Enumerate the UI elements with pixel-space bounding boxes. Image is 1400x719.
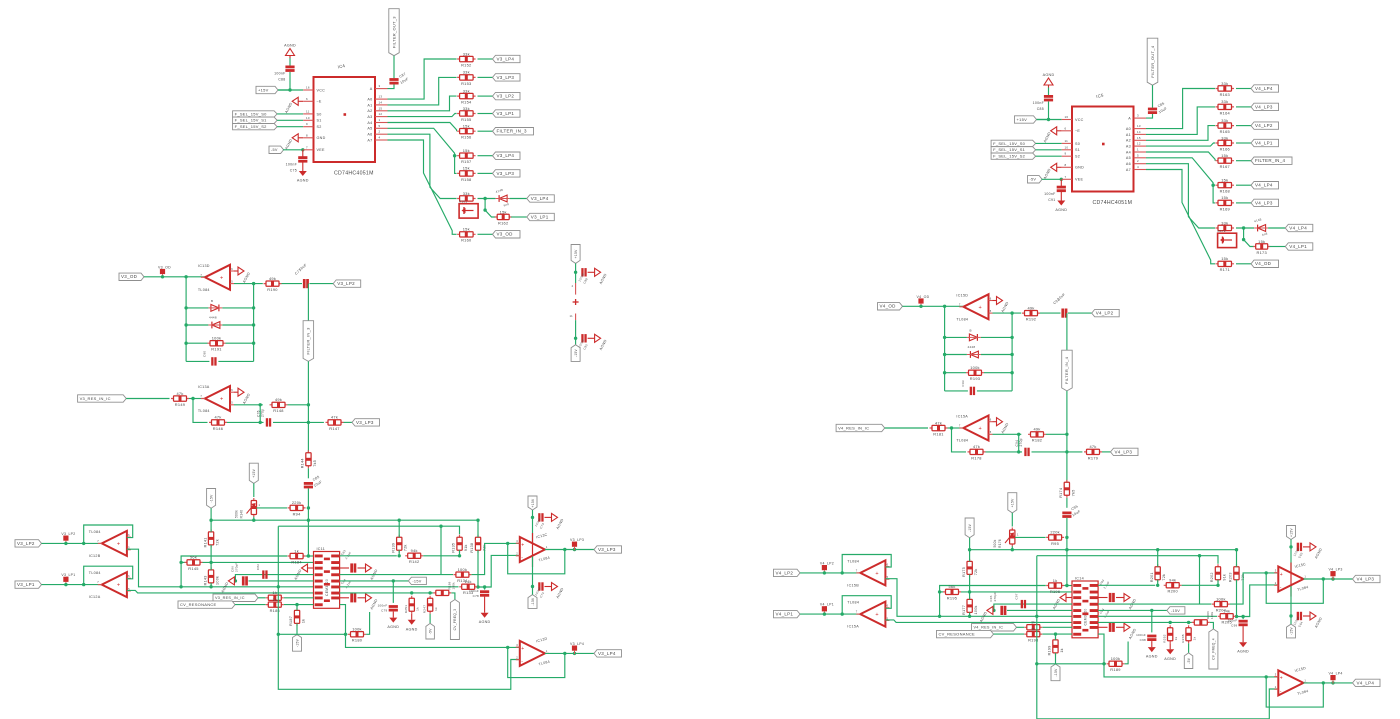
wire (253, 517, 255, 520)
wire (477, 555, 520, 587)
svg-text:AGND: AGND (1043, 168, 1052, 180)
capacitor C95 10uF (1062, 512, 1071, 515)
pin 9 S2 (303, 126, 313, 128)
wire (1046, 433, 1067, 435)
net flag V3_LP4 (493, 152, 521, 159)
wire (1236, 263, 1251, 265)
wire A2 (1146, 126, 1215, 141)
wire to filter (885, 579, 1072, 617)
svg-text:A7: A7 (1126, 168, 1131, 172)
junction (943, 305, 946, 308)
svg-text:7k5: 7k5 (313, 460, 317, 467)
wire (575, 263, 577, 283)
net flag CV_RESONANCE (178, 601, 235, 608)
svg-text:AGND: AGND (284, 44, 296, 48)
wire row E (1007, 609, 1072, 611)
svg-text:FILTER_IN_3: FILTER_IN_3 (306, 327, 311, 355)
svg-text:A6: A6 (1126, 162, 1131, 166)
svg-text:7: 7 (97, 580, 99, 584)
wire rail 2 (278, 526, 459, 534)
ground AGND at op-amp (234, 391, 238, 393)
svg-text:C74: C74 (539, 591, 545, 598)
svg-text:-5V: -5V (1187, 657, 1191, 663)
svg-text:+15V: +15V (574, 249, 578, 258)
filter IC IC11 CEM3320 (314, 552, 340, 609)
pin 1 A4 (375, 122, 388, 124)
pin 14 A1 (1134, 133, 1147, 135)
resistor R159 33k (457, 198, 476, 200)
resistor R196 1k (1046, 585, 1064, 587)
svg-text:33k: 33k (463, 191, 470, 196)
svg-text:C79: C79 (381, 609, 387, 613)
ground AGND below C75 (302, 163, 304, 172)
svg-text:1k: 1k (1053, 578, 1058, 583)
wire supply rail 1 (211, 519, 478, 521)
svg-text:R157: R157 (461, 159, 471, 164)
junction (179, 585, 182, 588)
wire (1217, 580, 1219, 586)
wire (344, 421, 353, 423)
svg-text:AGND: AGND (1164, 657, 1176, 661)
svg-text:R164: R164 (1220, 110, 1231, 115)
op-amp IC13D (205, 265, 230, 290)
net flag V3_OD input (119, 273, 144, 280)
svg-text:AGND: AGND (1314, 547, 1323, 559)
wire rail 2 (1037, 556, 1218, 564)
resistor R179 47k (1084, 451, 1102, 453)
svg-text:15: 15 (379, 106, 383, 110)
resistor R184 1k (288, 555, 306, 557)
trimmer R140 500k (253, 498, 255, 517)
op-amp IC13C (520, 537, 545, 562)
svg-text:A7: A7 (367, 138, 372, 142)
wire (1236, 585, 1279, 617)
net flag CV_FREQ_3 (450, 600, 459, 640)
wire branch (440, 526, 442, 574)
wire (144, 276, 205, 278)
junction (943, 371, 946, 374)
wire (210, 520, 212, 532)
svg-text:1k: 1k (301, 619, 305, 623)
svg-text:4: 4 (1137, 165, 1139, 169)
svg-text:R252: R252 (1162, 634, 1166, 643)
svg-text:3: 3 (1275, 569, 1277, 573)
wire row B resistor branch (181, 561, 185, 563)
wire feedback (842, 555, 891, 573)
op-amp IC15C (1278, 567, 1303, 592)
wire (210, 545, 212, 563)
svg-text:2: 2 (1275, 685, 1277, 689)
resistor R152 33k (457, 58, 476, 60)
svg-text:R147: R147 (329, 426, 339, 431)
wire left branch R180 row (1037, 556, 1279, 719)
svg-text:C82: C82 (256, 564, 260, 570)
svg-text:100k: 100k (1210, 611, 1214, 619)
junction (1011, 548, 1014, 551)
svg-text:13: 13 (379, 95, 383, 99)
svg-text:CV_FREQ_3: CV_FREQ_3 (453, 609, 457, 631)
svg-text:R167: R167 (1220, 164, 1230, 169)
op-amp IC15A (963, 416, 988, 441)
svg-text:6: 6 (231, 388, 233, 392)
svg-text:C91: C91 (1048, 198, 1055, 202)
junction (1235, 615, 1238, 618)
svg-text:A5: A5 (1126, 156, 1131, 160)
wire (284, 604, 314, 606)
svg-text:-15V: -15V (531, 597, 535, 606)
resistor R158 15k (457, 172, 476, 174)
svg-text:V4_LP3: V4_LP3 (1329, 568, 1343, 572)
svg-text:S2: S2 (317, 125, 322, 129)
net flag V4_LP3 (1251, 103, 1279, 110)
resistor R149 47k (171, 398, 189, 400)
svg-text:R160: R160 (461, 238, 472, 243)
junction (184, 306, 187, 309)
resistor R192 49k (1022, 312, 1040, 314)
supply flag +15V at op-amp (1287, 526, 1296, 540)
svg-text:6: 6 (128, 574, 130, 578)
wire (485, 199, 495, 218)
svg-text:49k: 49k (269, 276, 276, 281)
svg-text:R179: R179 (1088, 455, 1098, 460)
wire (459, 550, 461, 556)
wire (1268, 227, 1285, 229)
svg-text:C78: C78 (473, 594, 479, 598)
junction (1322, 577, 1325, 580)
junction (938, 590, 941, 593)
op-amp power pins IC12P (575, 283, 577, 295)
wire (1037, 663, 1106, 665)
capacitor C75 100nF (302, 150, 304, 157)
supply flag -5V (1184, 653, 1193, 669)
wire (1157, 550, 1159, 567)
resistor R154 33k (457, 95, 476, 97)
junction (161, 275, 164, 278)
supply flag -15V row E (1167, 607, 1185, 614)
wire (1036, 142, 1062, 144)
svg-text:6: 6 (128, 533, 130, 537)
svg-text:7: 7 (856, 610, 858, 614)
svg-text:100nF: 100nF (274, 72, 285, 76)
wire (1011, 546, 1013, 549)
resistor R197 1k (1024, 626, 1042, 628)
ground AGND (545, 516, 552, 518)
wire trimmer wiper (256, 507, 287, 509)
supply flag -5V (426, 623, 435, 639)
junction (209, 561, 212, 564)
svg-text:270pF: 270pF (993, 592, 997, 602)
resistor R177 100k vertical (969, 597, 971, 615)
svg-text:R149: R149 (175, 402, 185, 407)
ground AGND below C79 (1151, 641, 1153, 647)
svg-text:1k: 1k (294, 548, 299, 553)
svg-text:C73: C73 (539, 522, 545, 529)
wire (278, 89, 303, 91)
filter IC IC14 CEM3320 (1072, 581, 1098, 638)
svg-text:R139: R139 (391, 543, 395, 553)
svg-text:V4_LP1: V4_LP1 (1255, 140, 1273, 145)
wire (1036, 149, 1062, 151)
svg-text:+: + (521, 646, 524, 652)
wire (1066, 518, 1068, 585)
pin 5 A5 (1134, 157, 1147, 159)
resistor R175 72k vertical (969, 559, 971, 577)
resistor R171 15k (1216, 263, 1235, 265)
wire (186, 342, 208, 344)
svg-text:-: - (1280, 689, 1282, 695)
svg-text:V3_LP4: V3_LP4 (570, 642, 584, 646)
pin 3 A (1134, 117, 1147, 119)
svg-text:100k: 100k (452, 582, 456, 590)
op-amp IC15A buffer (860, 602, 885, 627)
wire (210, 562, 212, 570)
svg-text:1: 1 (1304, 678, 1306, 682)
net flag V4_LP4 (1251, 85, 1279, 92)
svg-text:AGND: AGND (1314, 616, 1323, 628)
wire (1102, 451, 1111, 453)
svg-text:IC5: IC5 (1096, 92, 1105, 99)
svg-text:33k: 33k (1221, 118, 1228, 123)
supply flag -5V (269, 146, 284, 153)
junction (968, 548, 971, 551)
supply flag -5V (1028, 176, 1043, 183)
svg-text:R189: R189 (1110, 667, 1120, 672)
pin 6 ~E (1062, 130, 1072, 132)
wire (227, 421, 264, 423)
pin 5 A5 (375, 127, 388, 129)
wire row D right (340, 574, 453, 576)
svg-text:S1: S1 (1075, 148, 1080, 152)
junction (1047, 118, 1050, 121)
svg-text:1: 1 (546, 649, 548, 653)
wire (253, 483, 255, 497)
svg-text:5: 5 (379, 124, 381, 128)
ground AGND at op-amp (993, 421, 997, 423)
wire (222, 324, 253, 326)
pin 11 S0 (1062, 142, 1072, 144)
svg-text:A4: A4 (367, 121, 372, 125)
resistor R200 94k (1164, 584, 1182, 586)
svg-text:V3_LP4: V3_LP4 (497, 153, 515, 158)
junction (1102, 662, 1105, 665)
wire (969, 592, 971, 600)
svg-text:-15V: -15V (295, 638, 299, 647)
svg-text:R187: R187 (289, 616, 293, 626)
svg-text:270p: 270p (1019, 438, 1023, 446)
pin 13 A0 (375, 98, 388, 100)
supply flag +15V at op-amp (528, 496, 537, 510)
capacitor C89 100nF (581, 268, 583, 276)
svg-text:CV_FREQ_4: CV_FREQ_4 (1212, 638, 1216, 660)
ground AGND left of filter pin (308, 567, 314, 569)
svg-text:AGND: AGND (1146, 655, 1158, 659)
wire (510, 198, 527, 200)
svg-text:V3_LP4: V3_LP4 (497, 56, 515, 61)
junction (288, 88, 291, 91)
diode D4b 4448 (970, 351, 978, 358)
net flag V4_LP2 buffer input (774, 569, 801, 576)
svg-text:7k5: 7k5 (1071, 489, 1075, 496)
junction (301, 148, 304, 151)
junction (1289, 545, 1292, 548)
wire (981, 336, 1012, 338)
svg-text:AGND: AGND (599, 339, 608, 351)
junction (252, 282, 255, 285)
svg-text:+: + (117, 583, 121, 589)
junction (307, 403, 310, 406)
svg-text:47k: 47k (1089, 444, 1096, 449)
capacitor C85 10uF (304, 482, 313, 485)
svg-text:49k: 49k (1027, 305, 1034, 310)
pin 12 A3 (375, 116, 388, 118)
junction (1216, 584, 1219, 587)
wire (945, 390, 968, 392)
svg-text:-15V: -15V (574, 348, 578, 357)
pin 9 S2 (1062, 155, 1072, 157)
svg-text:16: 16 (1065, 115, 1069, 119)
svg-text:IC15B: IC15B (847, 583, 859, 587)
capacitor C97 (1000, 606, 1003, 615)
junction (458, 554, 461, 557)
wire feedback (1266, 677, 1323, 707)
junction (64, 583, 67, 586)
wire (126, 398, 169, 400)
svg-text:270pF: 270pF (235, 562, 239, 572)
ground AGND row E (234, 580, 235, 582)
wire (277, 126, 303, 128)
svg-text:V4_LP4: V4_LP4 (1255, 86, 1273, 91)
ground AGND (545, 586, 552, 588)
junction (191, 397, 194, 400)
wire A6 (1146, 164, 1215, 228)
net flag F_SEL_15V_S1 (991, 147, 1036, 153)
wire (1055, 653, 1057, 664)
svg-text:+: + (875, 612, 879, 618)
svg-text:R141: R141 (203, 537, 207, 547)
svg-text:-15V: -15V (1171, 609, 1180, 613)
supply flag -15V row E (408, 577, 426, 584)
svg-text:10uF: 10uF (1057, 292, 1067, 301)
wire (1236, 184, 1251, 186)
svg-text:R182: R182 (1032, 438, 1042, 443)
net flag V3_LP2 (493, 92, 521, 99)
wire (1270, 246, 1286, 248)
wire vertical trunk (307, 361, 309, 452)
wire (278, 72, 290, 90)
svg-text:A4: A4 (1126, 150, 1131, 154)
wire (800, 572, 860, 574)
resistor R248 1k vertical (1188, 625, 1190, 643)
wire (478, 198, 496, 200)
junction (919, 305, 922, 308)
ground AGND at enable pin (1057, 130, 1062, 132)
svg-text:R196: R196 (1050, 589, 1060, 594)
supply flag -15V at op-amp (528, 595, 537, 609)
svg-text:-: - (521, 555, 523, 561)
svg-text:V4_LP3: V4_LP3 (1255, 104, 1273, 109)
resistor R182 49k (1028, 433, 1046, 435)
svg-text:-15V: -15V (968, 523, 972, 532)
wire (478, 233, 493, 235)
ground AGND cap row right (1098, 597, 1107, 599)
svg-text:3: 3 (1137, 114, 1139, 118)
svg-text:IC15A: IC15A (956, 415, 968, 419)
svg-text:7: 7 (200, 273, 202, 277)
svg-text:15k: 15k (1221, 195, 1228, 200)
wire feedback branch (1018, 434, 1020, 452)
wire A0 to R163 (1146, 89, 1215, 129)
svg-text:A2: A2 (1126, 139, 1131, 143)
pin 14 A1 (375, 104, 388, 106)
op-amp IC15D (963, 294, 988, 319)
svg-text:R163: R163 (1220, 92, 1230, 97)
svg-text:~E: ~E (317, 100, 322, 104)
svg-text:33k: 33k (1221, 220, 1228, 225)
resistor R181 47k (930, 427, 948, 429)
net flag F_SEL_15V_S2 (233, 124, 278, 130)
wire to filter (127, 549, 314, 587)
wire A4 (1146, 152, 1215, 161)
svg-text:V3_OD: V3_OD (497, 232, 514, 237)
net flag F_SEL_15V_S2 (991, 153, 1036, 159)
junction (483, 208, 486, 211)
net flag V3_LP3 (493, 170, 521, 177)
wire (948, 427, 964, 429)
svg-text:-5V: -5V (1030, 178, 1037, 182)
svg-text:R181: R181 (933, 431, 943, 436)
svg-text:R247: R247 (422, 605, 426, 614)
resistor R170 33k (1216, 227, 1235, 229)
wire (398, 520, 400, 537)
resistor R191 100k (208, 342, 226, 344)
svg-text:R202: R202 (1210, 572, 1214, 582)
svg-text:14k: 14k (465, 579, 472, 584)
capacitor C90 100nF (581, 334, 583, 342)
svg-text:V4_OD: V4_OD (1255, 261, 1272, 266)
wire (1236, 202, 1251, 204)
supply flag +15V power block (571, 245, 580, 264)
diode D3 4148 (499, 195, 507, 202)
wire A3 (388, 114, 457, 117)
svg-text:100nF: 100nF (378, 604, 388, 608)
svg-text:V3_RES_IN_IC: V3_RES_IN_IC (215, 596, 245, 600)
wire A0 to R152 (388, 59, 457, 99)
svg-text:F_SEL_15V_S2: F_SEL_15V_S2 (993, 154, 1026, 159)
capacitor C61 (1109, 593, 1112, 602)
svg-text:2: 2 (516, 552, 518, 556)
analog multiplexer IC4 CD74HC4051M (314, 77, 376, 162)
resistor R199 1k vertical (1055, 637, 1057, 655)
wire output (993, 433, 1022, 435)
svg-text:VEE: VEE (1075, 178, 1083, 182)
svg-text:15k: 15k (1221, 153, 1228, 158)
svg-text:R94: R94 (293, 511, 302, 516)
pin 15 A2 (1134, 139, 1147, 141)
svg-text:R138: R138 (470, 543, 474, 553)
svg-text:R154: R154 (461, 100, 472, 105)
svg-text:A0: A0 (1126, 127, 1131, 131)
wire (478, 113, 493, 115)
svg-text:R191: R191 (211, 347, 221, 352)
wire (1042, 178, 1062, 180)
resistor R195 56k (943, 591, 961, 593)
resistor R139 72k vertical (398, 535, 400, 553)
wire (284, 597, 314, 599)
wire feedback (193, 399, 208, 423)
resistor R135 91k vertical (459, 535, 461, 553)
svg-text:33k: 33k (463, 106, 470, 111)
svg-text:-: - (521, 659, 523, 665)
